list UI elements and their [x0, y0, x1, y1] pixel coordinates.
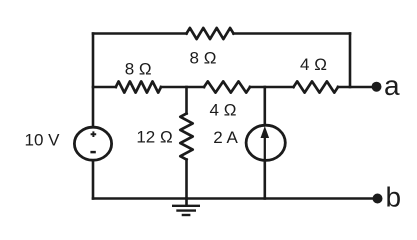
wire: top horizontal left segment	[93, 32, 187, 35]
resistor R2 4ohm zigzag (middle)	[204, 81, 250, 92]
wire: bottom horizontal	[93, 197, 373, 200]
resistor R4 12ohm vertical zigzag	[180, 114, 192, 160]
svg-text:4 Ω: 4 Ω	[300, 55, 327, 74]
wire: middle row between 4ohm and right 4ohm	[250, 86, 294, 89]
ground stem	[185, 199, 188, 205]
voltage source V1 circle	[74, 127, 111, 160]
svg-text:a: a	[384, 70, 400, 101]
svg-text:12 Ω: 12 Ω	[136, 128, 172, 147]
wire: right vertical from top to node A row	[349, 34, 352, 88]
wire: middle row from left vertical to 8ohm resistor	[93, 86, 116, 89]
svg-text:10 V: 10 V	[25, 131, 61, 150]
voltage source minus sign	[90, 151, 95, 154]
wire: 2A branch upper	[263, 87, 266, 124]
wire: top horizontal right segment	[234, 32, 351, 35]
ground symbol bars	[172, 206, 200, 215]
svg-text:4 Ω: 4 Ω	[210, 101, 237, 120]
wire: middle row between 8ohm and 4ohm	[161, 86, 204, 89]
current source I1 circle	[246, 125, 285, 160]
wire: 12ohm branch lower to bottom wire	[185, 160, 188, 199]
resistor R-top 8ohm zigzag	[187, 28, 234, 39]
wire: left vertical lower (source bottom to bottom wire)	[92, 160, 95, 199]
wire: 12ohm branch upper	[185, 87, 188, 114]
resistor R1 8ohm zigzag (middle left)	[116, 81, 161, 92]
wire: left vertical upper (top corner down past middle junction to source)	[92, 34, 95, 128]
current source arrowhead	[261, 126, 270, 138]
wire: middle row to terminal a	[338, 86, 373, 89]
terminal node b dot	[373, 194, 383, 204]
svg-text:2 A: 2 A	[213, 128, 238, 147]
terminal node a dot	[372, 82, 382, 92]
svg-text:b: b	[386, 182, 402, 213]
voltage source plus sign	[91, 131, 97, 137]
svg-text:8 Ω: 8 Ω	[190, 48, 217, 67]
resistor R3 4ohm zigzag (right)	[294, 81, 339, 92]
wire: 2A branch lower	[263, 161, 266, 199]
svg-text:8 Ω: 8 Ω	[125, 59, 152, 78]
current source arrow stem	[264, 132, 266, 160]
